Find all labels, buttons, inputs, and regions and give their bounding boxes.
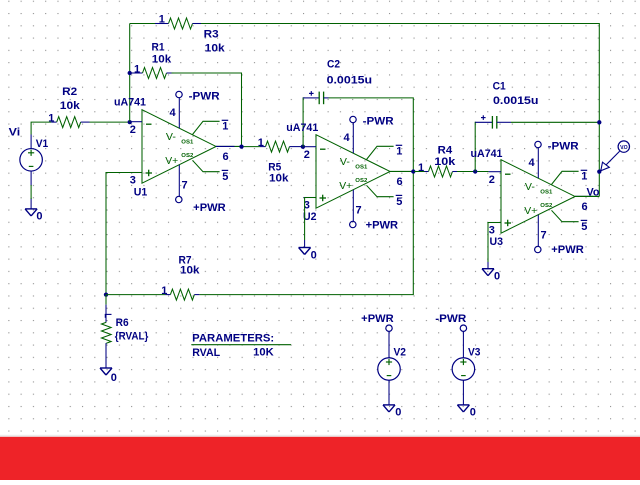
pin 1 label of R5 xyxy=(258,137,264,149)
value {RVAL} of R6 xyxy=(115,331,149,343)
label V1 xyxy=(36,138,49,150)
resistor R2 xyxy=(51,117,89,128)
wire top feedback to R3 xyxy=(130,23,156,25)
svg-text:5: 5 xyxy=(396,196,402,208)
value 0.0015u of C1 xyxy=(493,95,539,107)
svg-text:-PWR: -PWR xyxy=(363,116,394,128)
svg-text:uA741: uA741 xyxy=(114,96,146,108)
svg-text:6: 6 xyxy=(223,151,229,163)
wire U3 pin 3 to ground xyxy=(488,223,501,269)
svg-text:5: 5 xyxy=(222,171,228,183)
capacitor C2 xyxy=(303,92,328,105)
svg-text:OS2: OS2 xyxy=(355,178,367,184)
svg-text:OS1: OS1 xyxy=(355,165,367,171)
node Vo junction xyxy=(597,169,601,173)
wire C1 left branch xyxy=(474,122,477,171)
wire C1 right to output column xyxy=(511,121,599,123)
svg-text:5: 5 xyxy=(581,221,587,233)
wire V1 to ground xyxy=(30,185,32,199)
svg-text:1: 1 xyxy=(159,14,165,26)
svg-text:R3: R3 xyxy=(204,28,219,40)
svg-text:4: 4 xyxy=(170,107,177,119)
pin 1 label of R1 xyxy=(134,63,140,75)
svg-text:1: 1 xyxy=(418,162,424,174)
svg-text:6: 6 xyxy=(397,176,403,188)
svg-text:2: 2 xyxy=(489,174,495,186)
svg-text:U3: U3 xyxy=(490,236,504,248)
wire U3 output pin lead xyxy=(575,195,593,197)
value 10k of R3 xyxy=(205,43,226,55)
wire R4 to U3 pin 2 xyxy=(457,171,489,173)
svg-text:+PWR: +PWR xyxy=(366,220,399,232)
svg-text:R2: R2 xyxy=(62,86,77,98)
svg-text:+PWR: +PWR xyxy=(193,202,226,214)
svg-text:-PWR: -PWR xyxy=(435,313,466,325)
wire C2 right to U2 output node xyxy=(329,98,414,172)
svg-text:10k: 10k xyxy=(434,156,456,168)
wire junction to R7 xyxy=(106,294,166,296)
svg-text:V+: V+ xyxy=(165,155,178,167)
ground below R6 xyxy=(100,368,112,375)
resistor R7 xyxy=(166,289,200,300)
capacitor C1 xyxy=(475,116,511,129)
svg-text:2: 2 xyxy=(304,149,310,161)
node U3 inverting input junction xyxy=(473,169,477,173)
svg-text:1: 1 xyxy=(222,120,228,132)
op-amp U1 xyxy=(130,91,240,203)
svg-text:6: 6 xyxy=(582,201,588,213)
svg-text:1: 1 xyxy=(161,285,167,297)
svg-text:R6: R6 xyxy=(116,317,129,329)
svg-text:U1: U1 xyxy=(134,186,148,198)
power net label +PWR of U3 xyxy=(551,244,584,256)
value 10k of R2 xyxy=(60,100,81,112)
parameters block xyxy=(191,333,291,359)
svg-text:V+: V+ xyxy=(339,180,352,192)
label R7 xyxy=(179,254,192,266)
power net label -PWR of V3 xyxy=(435,313,466,325)
label 0 at V2 ground xyxy=(395,406,401,418)
op-amp U3 xyxy=(489,141,599,253)
value 0.0015u of C2 xyxy=(327,74,373,86)
voltage source V3 xyxy=(452,325,475,405)
label U1 xyxy=(134,186,148,198)
polarity + of C1 xyxy=(481,115,486,120)
svg-text:V-: V- xyxy=(525,181,536,193)
wire U3 output to column xyxy=(575,195,599,197)
value 10k of R5 xyxy=(269,173,289,185)
svg-text:0: 0 xyxy=(470,406,476,418)
wire U1 pin 3 to feedback row xyxy=(106,173,142,295)
svg-text:OS2: OS2 xyxy=(181,153,193,159)
svg-text:10k: 10k xyxy=(152,54,172,66)
wire U2 output to R4 xyxy=(414,171,425,173)
svg-text:7: 7 xyxy=(356,204,362,216)
ground below U3 xyxy=(482,269,494,276)
label C1 xyxy=(493,80,506,92)
svg-text:10k: 10k xyxy=(180,265,200,277)
label C2 xyxy=(327,59,340,71)
svg-text:V+: V+ xyxy=(524,205,537,217)
svg-text:0.0015u: 0.0015u xyxy=(493,95,539,107)
node R1 left junction xyxy=(128,71,132,75)
wire R3 to output column xyxy=(201,24,599,197)
svg-text:4: 4 xyxy=(529,157,536,169)
svg-text:PARAMETERS:: PARAMETERS: xyxy=(192,333,274,345)
label uA741 of U2 xyxy=(286,122,318,134)
wire U2 pin 3 to ground xyxy=(305,198,316,248)
svg-text:R5: R5 xyxy=(268,161,281,173)
ground below V1 xyxy=(25,209,37,216)
ground below V2 xyxy=(383,405,395,412)
voltage source V1 xyxy=(20,135,42,209)
svg-text:OS2: OS2 xyxy=(540,203,552,209)
label R4 xyxy=(438,145,453,157)
svg-text:{RVAL}: {RVAL} xyxy=(115,331,149,343)
wire junction up to R1 and R3 xyxy=(129,24,131,123)
resistor R4 xyxy=(425,166,458,177)
resistor R1 xyxy=(130,68,174,79)
svg-text:10k: 10k xyxy=(60,100,81,112)
power net label +PWR of U2 xyxy=(366,220,399,232)
svg-text:7: 7 xyxy=(541,229,547,241)
svg-text:V1: V1 xyxy=(36,138,49,150)
svg-text:VO: VO xyxy=(620,145,628,151)
power net label +PWR of V2 xyxy=(361,313,394,325)
svg-text:1: 1 xyxy=(134,63,140,75)
svg-text:V2: V2 xyxy=(394,347,407,359)
wire R2 to U1 pin 2 xyxy=(90,121,130,123)
label R5 xyxy=(268,161,281,173)
svg-text:uA741: uA741 xyxy=(471,148,503,160)
label 0 at V1 ground xyxy=(36,211,42,223)
svg-text:1: 1 xyxy=(48,112,54,124)
svg-text:-PWR: -PWR xyxy=(548,141,579,153)
label U2 xyxy=(303,211,317,223)
value 10k of R7 xyxy=(180,265,200,277)
svg-text:R4: R4 xyxy=(438,145,453,157)
label V3 xyxy=(468,347,481,359)
svg-text:RVAL: RVAL xyxy=(192,347,220,359)
svg-text:1: 1 xyxy=(581,170,587,182)
svg-text:0.0015u: 0.0015u xyxy=(327,74,373,86)
ground below U2 xyxy=(299,248,311,255)
node U1 inverting input junction xyxy=(128,120,132,124)
svg-text:Vo: Vo xyxy=(587,186,600,198)
svg-text:R1: R1 xyxy=(152,42,165,54)
svg-text:3: 3 xyxy=(130,175,136,187)
resistor R5 xyxy=(260,141,303,152)
power net label +PWR of U1 xyxy=(193,202,226,214)
resistor R6 xyxy=(102,295,112,368)
label R1 xyxy=(152,42,165,54)
svg-text:10k: 10k xyxy=(205,43,226,55)
value 10k of R4 xyxy=(434,156,456,168)
wire U1 output to R5 xyxy=(240,146,260,148)
svg-text:1: 1 xyxy=(396,145,402,157)
svg-text:C2: C2 xyxy=(327,59,340,71)
svg-text:0: 0 xyxy=(36,211,42,223)
svg-text:0: 0 xyxy=(395,406,401,418)
label 0 at V3 ground xyxy=(470,406,476,418)
svg-text:OS1: OS1 xyxy=(181,140,193,146)
node label Vo xyxy=(587,186,600,198)
red status bar xyxy=(0,435,640,437)
pin 1 label of R3 xyxy=(159,14,165,26)
svg-text:Vi: Vi xyxy=(9,126,21,138)
resistor R3 xyxy=(155,18,201,29)
ground below V3 xyxy=(457,405,469,412)
label R2 xyxy=(62,86,77,98)
svg-text:1: 1 xyxy=(258,137,264,149)
svg-text:V3: V3 xyxy=(468,347,481,359)
svg-text:0: 0 xyxy=(311,249,317,261)
wire R1 to U1 output node xyxy=(172,73,242,147)
svg-text:-PWR: -PWR xyxy=(189,91,220,103)
svg-text:10k: 10k xyxy=(269,173,289,185)
voltage source V2 xyxy=(378,325,401,405)
svg-text:uA741: uA741 xyxy=(286,122,318,134)
label 0 at U3 ground xyxy=(494,271,500,283)
svg-text:2: 2 xyxy=(130,124,136,136)
svg-text:4: 4 xyxy=(344,132,351,144)
wire U1 output pin lead xyxy=(216,145,235,147)
svg-text:0: 0 xyxy=(111,372,117,384)
label uA741 of U3 xyxy=(471,148,503,160)
label R6 xyxy=(116,317,129,329)
node label Vi xyxy=(9,126,21,138)
pin 1 tick of R6 xyxy=(105,314,112,317)
node U1 output junction xyxy=(239,144,243,148)
node U2 output junction xyxy=(411,169,415,173)
wire R7 to U2 output node xyxy=(199,172,413,295)
pin 1 label of R4 xyxy=(418,162,424,174)
op-amp U2 xyxy=(304,116,414,228)
polarity + of C2 xyxy=(309,91,314,96)
wire C2 left branch xyxy=(303,98,304,147)
svg-text:OS1: OS1 xyxy=(540,190,552,196)
label R3 xyxy=(204,28,219,40)
svg-text:0: 0 xyxy=(494,271,500,283)
wire Vi input from V1 to R2 xyxy=(31,122,51,134)
svg-text:+PWR: +PWR xyxy=(361,313,394,325)
node U2 inverting input junction xyxy=(301,145,305,149)
svg-text:10K: 10K xyxy=(253,347,274,359)
svg-text:+PWR: +PWR xyxy=(551,244,584,256)
node feedback row junction xyxy=(104,292,108,296)
label U3 xyxy=(490,236,504,248)
viewpoint probe at Vo xyxy=(601,141,630,171)
label 0 at U2 ground xyxy=(311,249,317,261)
svg-text:C1: C1 xyxy=(493,80,506,92)
value 10k of R1 xyxy=(152,54,172,66)
svg-text:7: 7 xyxy=(182,179,188,191)
pin 1 label of R2 xyxy=(48,112,54,124)
label uA741 of U1 xyxy=(114,96,146,108)
pin 1 label of R7 xyxy=(161,285,167,297)
label 0 at R6 ground xyxy=(111,372,117,384)
node C1 output column junction xyxy=(597,120,601,124)
svg-text:V-: V- xyxy=(166,131,177,143)
svg-text:V-: V- xyxy=(340,156,351,168)
label V2 xyxy=(394,347,407,359)
